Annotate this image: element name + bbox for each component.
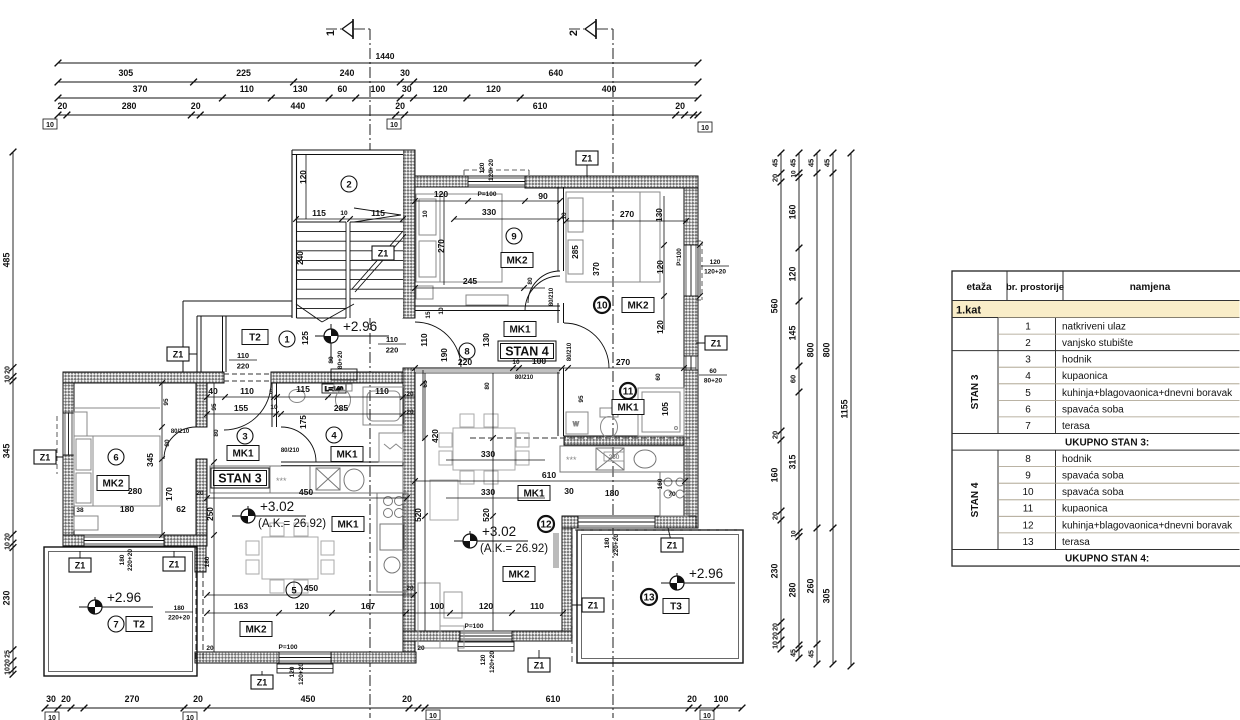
room number 5 (286, 582, 302, 598)
svg-text:80/210: 80/210 (515, 375, 534, 381)
bed room6 (74, 408, 160, 530)
svg-text:270: 270 (437, 239, 446, 253)
svg-text:240: 240 (340, 68, 355, 78)
svg-text:30: 30 (402, 84, 412, 94)
svg-text:20: 20 (5, 659, 12, 667)
terrace 13 outline (577, 530, 743, 663)
gray curtain room12 (553, 533, 559, 568)
svg-text:3: 3 (1025, 355, 1031, 366)
east wall middle piece (684, 296, 698, 356)
window north P=100 (468, 176, 525, 187)
svg-text:Z1: Z1 (378, 249, 389, 259)
svg-text:115: 115 (371, 208, 385, 218)
boxed 10 labels bottom chain (45, 710, 714, 720)
svg-text:2: 2 (568, 30, 580, 36)
dim line room9 c (412, 285, 545, 291)
window east P=100 (684, 245, 698, 296)
svg-text:120: 120 (656, 320, 665, 334)
svg-text:640: 640 (548, 68, 563, 78)
svg-text:330: 330 (481, 449, 496, 459)
svg-text:UKUPNO STAN 3:: UKUPNO STAN 3: (1065, 437, 1149, 448)
label Z1 kitchen window (661, 528, 683, 552)
svg-text:30: 30 (46, 694, 56, 704)
svg-text:12: 12 (540, 520, 552, 531)
room number 6 (108, 449, 124, 465)
label Z1 room5 window (251, 671, 273, 689)
svg-text:20: 20 (191, 101, 201, 111)
svg-text:80: 80 (328, 356, 335, 364)
dim line room10 vertical (661, 196, 667, 330)
bathroom11 south wall (564, 436, 684, 445)
door arc bath4 (281, 427, 316, 462)
window east sill dashes (696, 241, 702, 300)
bottom dim chain (42, 694, 746, 711)
svg-text:240: 240 (296, 251, 305, 265)
svg-text:110: 110 (386, 335, 398, 344)
stairwell outline (292, 150, 403, 318)
room12 south wall west piece (403, 631, 460, 641)
svg-text:2: 2 (1025, 338, 1031, 349)
svg-text:180: 180 (604, 537, 611, 548)
svg-text:180: 180 (204, 556, 211, 567)
svg-text:167: 167 (361, 601, 376, 611)
svg-text:420: 420 (431, 429, 440, 443)
svg-text:155: 155 (234, 403, 249, 413)
wall room6 right lower (196, 459, 207, 546)
dim line STAN3 row1 (204, 394, 415, 400)
STAN4 kitchen south wall west piece (562, 516, 578, 528)
svg-text:1: 1 (284, 334, 290, 345)
svg-text:20: 20 (417, 645, 425, 652)
interior dimension labels (76, 159, 729, 685)
dim line STAN3 west vertical (211, 383, 217, 652)
label MK1 corridor8 (504, 322, 536, 337)
svg-text:90: 90 (538, 191, 548, 201)
svg-text:45: 45 (791, 649, 798, 657)
svg-text:120: 120 (788, 267, 798, 282)
svg-text:+2.96: +2.96 (107, 590, 141, 605)
svg-text:163: 163 (234, 601, 249, 611)
svg-text:20: 20 (61, 694, 71, 704)
svg-text:Z1: Z1 (257, 678, 268, 688)
svg-text:95: 95 (163, 398, 170, 406)
svg-text:10: 10 (48, 715, 56, 720)
door arc STAN3 entry (224, 383, 271, 430)
partition bath4 south (281, 462, 403, 466)
svg-text:370: 370 (592, 262, 601, 276)
svg-text:+3.02: +3.02 (260, 499, 294, 514)
east wall lower piece (684, 370, 698, 528)
svg-text:345: 345 (146, 453, 155, 467)
svg-text:20: 20 (406, 409, 414, 416)
door sill L=140 (322, 369, 357, 393)
svg-text:15: 15 (425, 311, 432, 319)
svg-text:120: 120 (480, 654, 487, 665)
svg-text:10: 10 (438, 307, 445, 315)
svg-text:MK2: MK2 (102, 479, 124, 490)
partition room3/room4 (272, 383, 277, 427)
svg-text:120: 120 (656, 260, 665, 274)
kitchen STAN3 counter (210, 466, 407, 592)
svg-text:kupaonica: kupaonica (1062, 504, 1108, 515)
svg-text:4: 4 (1025, 371, 1031, 382)
wardrobe corridor8 (466, 295, 508, 305)
section flag 1 (325, 19, 353, 39)
svg-text:10: 10 (5, 375, 12, 383)
svg-text:120: 120 (434, 189, 449, 199)
label Z1 east (696, 336, 727, 350)
label MK2 room9 (501, 253, 533, 268)
svg-text:8: 8 (464, 346, 469, 357)
svg-text:STAN 4: STAN 4 (970, 482, 981, 517)
label MK1 kitchen3 (332, 517, 364, 532)
hall1 canopy outline (183, 301, 292, 372)
svg-text:100: 100 (532, 356, 547, 366)
svg-text:br. prostorije: br. prostorije (1006, 282, 1064, 293)
svg-text:MK2: MK2 (508, 570, 530, 581)
window room6 south (84, 535, 164, 546)
svg-text:(A.K.= 26.92): (A.K.= 26.92) (258, 518, 326, 530)
svg-text:370: 370 (133, 84, 148, 94)
dim line room12 west vertical (422, 373, 428, 631)
svg-text:305: 305 (822, 589, 832, 604)
svg-text:10: 10 (5, 667, 12, 675)
svg-text:13: 13 (1022, 537, 1034, 548)
svg-text:20: 20 (395, 101, 405, 111)
svg-text:20: 20 (406, 585, 414, 592)
svg-text:280: 280 (122, 101, 137, 111)
window north sill dashes (464, 170, 529, 176)
svg-text:13: 13 (643, 593, 655, 604)
svg-text:MK1: MK1 (509, 325, 531, 336)
svg-text:1440: 1440 (376, 51, 395, 61)
svg-text:60: 60 (709, 368, 717, 375)
svg-text:80: 80 (484, 382, 491, 390)
label MK1 room3 (227, 446, 259, 461)
svg-text:175: 175 (299, 415, 308, 429)
section line 1 (326, 29, 370, 718)
svg-text:MK1: MK1 (336, 450, 358, 461)
svg-text:STAN 3: STAN 3 (970, 374, 981, 409)
svg-text:160: 160 (788, 205, 798, 220)
svg-text:225: 225 (236, 68, 251, 78)
svg-text:UKUPNO STAN 4:: UKUPNO STAN 4: (1065, 553, 1149, 564)
door arc STAN4 entry (415, 322, 461, 368)
label Z1 room12 east (572, 598, 604, 612)
svg-text:450: 450 (304, 583, 319, 593)
door arc room10 (525, 276, 560, 311)
svg-text:10: 10 (703, 713, 711, 720)
dim line room5 450 (204, 592, 417, 598)
svg-text:220+20: 220+20 (127, 549, 134, 571)
svg-text:120: 120 (289, 666, 296, 677)
svg-text:hodnik: hodnik (1062, 355, 1092, 366)
dim line STAN3 row2 (204, 411, 415, 417)
exterior wall room6 upper-left (63, 372, 74, 413)
svg-text:120: 120 (479, 162, 486, 173)
svg-text:10: 10 (5, 542, 12, 550)
svg-text:120: 120 (486, 84, 501, 94)
svg-text:250: 250 (206, 507, 215, 521)
svg-text:45: 45 (771, 159, 780, 167)
partition bath11 west (558, 311, 564, 436)
terrace 13 dashed overhang (572, 530, 743, 663)
label MK1 room4 (331, 447, 363, 462)
central wall lower (STAN3/STAN4 divider) (403, 368, 415, 652)
right dim chain 3 (806, 150, 821, 668)
svg-text:P=100: P=100 (677, 248, 683, 266)
svg-text:1155: 1155 (840, 399, 850, 418)
svg-text:180: 180 (120, 504, 135, 514)
svg-text:P=100: P=100 (279, 644, 298, 651)
svg-text:180: 180 (605, 488, 620, 498)
svg-text:MK1: MK1 (617, 403, 639, 414)
level marker STAN4 +3.02 (454, 524, 548, 555)
svg-text:kuhinja+blagovaonica+dnevni bo: kuhinja+blagovaonica+dnevni boravak (1062, 520, 1233, 531)
svg-text:60: 60 (338, 84, 348, 94)
svg-text:130: 130 (293, 84, 308, 94)
svg-text:20: 20 (196, 490, 204, 497)
boxed 10 labels top chain (43, 119, 712, 132)
svg-text:natkriveni ulaz: natkriveni ulaz (1062, 321, 1126, 332)
svg-text:5: 5 (1025, 388, 1031, 399)
svg-text:270: 270 (125, 694, 140, 704)
label T3 terrace13 (663, 599, 689, 614)
svg-text:245: 245 (463, 276, 478, 286)
room number 9 (506, 228, 522, 244)
svg-text:45: 45 (807, 159, 816, 167)
svg-text:230: 230 (770, 564, 780, 579)
label MK2 room12 (503, 567, 535, 582)
room number 10 (594, 297, 610, 313)
svg-text:450: 450 (299, 487, 314, 497)
window room12 south outer sill (458, 642, 514, 651)
svg-text:10: 10 (701, 125, 709, 132)
bathroom4 fixtures (289, 384, 404, 462)
door arc room9 (528, 271, 560, 303)
svg-text:spavaća soba: spavaća soba (1062, 471, 1124, 482)
svg-text:namjena: namjena (1130, 282, 1171, 293)
level marker hall +2.96 (315, 319, 389, 362)
svg-text:7: 7 (113, 619, 118, 630)
svg-text:7: 7 (1025, 421, 1031, 432)
svg-text:120+20: 120+20 (488, 159, 495, 181)
svg-text:560: 560 (770, 299, 780, 314)
svg-text:8: 8 (1025, 454, 1031, 465)
svg-text:1: 1 (1025, 321, 1031, 332)
label T2 terrace7 (126, 617, 152, 632)
svg-text:6: 6 (1025, 404, 1031, 415)
east wall upper piece (684, 188, 698, 245)
terrace railing dashed (196, 572, 203, 660)
dim line room12 330b (446, 497, 545, 499)
svg-text:T3: T3 (670, 602, 682, 613)
label MK2 room5 (240, 622, 272, 637)
svg-text:20: 20 (406, 391, 414, 398)
svg-text:125: 125 (301, 331, 310, 345)
terrace 7 outline (44, 547, 197, 676)
bed room10 (566, 192, 660, 282)
svg-text:kuhinja+blagovaonica+dnevni bo: kuhinja+blagovaonica+dnevni boravak (1062, 388, 1233, 399)
label STAN 4 (498, 341, 556, 361)
north wall east piece (525, 176, 698, 188)
svg-text:10: 10 (791, 170, 798, 178)
room number 2 (341, 176, 357, 192)
svg-text:65: 65 (422, 380, 429, 388)
svg-text:6: 6 (113, 452, 118, 463)
level marker terrace7 +2.96 (79, 590, 153, 614)
svg-text:280: 280 (788, 583, 798, 598)
svg-text:T2: T2 (133, 620, 145, 631)
svg-text:9: 9 (1025, 471, 1031, 482)
svg-text:95: 95 (211, 403, 218, 411)
svg-text:45: 45 (789, 159, 798, 167)
svg-text:110: 110 (237, 351, 249, 360)
STAN3 south wall west piece (195, 652, 279, 663)
room number 1 (279, 331, 295, 347)
dim line stairs vertical (305, 154, 307, 219)
svg-text:30: 30 (400, 68, 410, 78)
window room6 west (63, 413, 74, 455)
right dim chain 4 (822, 150, 837, 668)
dim line window east (697, 242, 703, 299)
svg-text:***: *** (276, 476, 287, 486)
label Z1 terrace7 left (69, 551, 91, 572)
bed room9 (416, 194, 502, 299)
room number 3 (237, 428, 253, 444)
svg-text:120+20: 120+20 (298, 663, 305, 685)
svg-text:180: 180 (119, 554, 126, 565)
svg-text:MK2: MK2 (627, 301, 649, 312)
svg-text:w: w (572, 419, 579, 428)
svg-text:P=100: P=100 (478, 191, 497, 198)
svg-text:45: 45 (823, 159, 832, 167)
svg-text:spavaća soba: spavaća soba (1062, 487, 1124, 498)
svg-text:20: 20 (5, 533, 12, 541)
label STAN 3 (211, 468, 269, 488)
dim line room9 a (412, 198, 563, 204)
svg-text:45: 45 (809, 650, 816, 658)
label Z1 hall (167, 347, 197, 361)
top wall STAN3 right part (271, 372, 415, 383)
dim line room9 b (451, 216, 563, 222)
svg-text:80/210: 80/210 (549, 287, 555, 306)
svg-text:vanjsko stubište: vanjsko stubište (1062, 338, 1134, 349)
room number 8 (459, 343, 475, 359)
room12 south wall east piece (512, 631, 572, 641)
svg-text:terasa: terasa (1062, 537, 1090, 548)
svg-text:MK1: MK1 (337, 520, 359, 531)
window room5 south outer sill (277, 664, 333, 673)
svg-text:160: 160 (770, 468, 780, 483)
svg-text:20: 20 (687, 694, 697, 704)
svg-text:1.kat: 1.kat (956, 305, 981, 317)
kitchen STAN4 counter (560, 446, 688, 516)
svg-text:100: 100 (430, 601, 445, 611)
svg-text:10: 10 (422, 210, 429, 218)
svg-text:terasa: terasa (1062, 421, 1090, 432)
svg-text:115: 115 (312, 208, 326, 218)
svg-text:280: 280 (128, 486, 143, 496)
dining set room12 (430, 414, 529, 520)
entrance door opening dashed (224, 374, 271, 381)
room number 7 (108, 616, 124, 632)
label MK2 room10 (622, 298, 654, 313)
label MK2 room6 (97, 476, 129, 491)
svg-text:10: 10 (773, 641, 780, 649)
svg-text:520: 520 (414, 508, 423, 522)
svg-text:12: 12 (1022, 520, 1034, 531)
svg-text:MK1: MK1 (232, 449, 254, 460)
svg-text:4: 4 (331, 430, 337, 441)
section flag 2 (568, 19, 596, 39)
svg-text:10: 10 (1022, 487, 1034, 498)
svg-text:610: 610 (542, 470, 557, 480)
north wall west piece (415, 176, 468, 187)
door arc room6 (164, 427, 196, 459)
svg-text:etaža: etaža (966, 282, 991, 293)
dim line kitchen3 (204, 495, 410, 501)
door arc bath11 (564, 323, 609, 368)
svg-text:10: 10 (791, 530, 798, 538)
thin line corridor8 south (415, 372, 560, 374)
svg-text:20: 20 (771, 431, 780, 439)
dim line stairs (293, 216, 406, 222)
svg-text:220: 220 (237, 362, 250, 371)
svg-text:+3.02: +3.02 (482, 524, 516, 539)
dashed beam room12 (470, 437, 690, 439)
label Z1 room12 window (528, 650, 550, 672)
svg-text:+2.96: +2.96 (689, 566, 723, 581)
svg-text:20: 20 (402, 694, 412, 704)
svg-text:610: 610 (546, 694, 561, 704)
svg-text:kupaonica: kupaonica (1062, 371, 1108, 382)
svg-text:70: 70 (668, 491, 676, 498)
svg-text:60: 60 (789, 375, 798, 383)
top wall STAN3 left part (63, 372, 224, 383)
dim line room12 610 (412, 478, 688, 484)
right dim chain 1 (770, 150, 785, 653)
svg-text:80/210: 80/210 (171, 429, 190, 435)
svg-text:20: 20 (193, 694, 203, 704)
svg-text:80+20: 80+20 (337, 350, 344, 369)
window room12 south P=100 (460, 631, 512, 641)
label Z1 stairs (372, 246, 394, 260)
svg-text:Z1: Z1 (711, 339, 722, 349)
room number 11 (620, 383, 636, 399)
svg-text:***: *** (566, 455, 577, 465)
svg-text:120: 120 (299, 170, 308, 184)
room number 4 (326, 427, 342, 443)
bathroom11 fixtures (566, 388, 684, 438)
label Z1 room6 window (34, 450, 63, 464)
svg-text:285: 285 (334, 403, 349, 413)
room number 12 (538, 516, 554, 532)
svg-text:40: 40 (208, 386, 218, 396)
svg-text:330: 330 (482, 207, 497, 217)
svg-text:800: 800 (806, 343, 816, 358)
room12 east wall (562, 528, 572, 641)
dim line room6 vertical (159, 380, 165, 538)
svg-text:250: 250 (609, 454, 620, 461)
bottom wall room6 left piece (63, 535, 84, 546)
room number 13 (641, 589, 657, 605)
svg-text:120+20: 120+20 (704, 269, 726, 276)
svg-text:10: 10 (512, 359, 520, 366)
svg-text:Z1: Z1 (588, 601, 599, 611)
svg-text:100: 100 (371, 84, 386, 94)
svg-text:220+20: 220+20 (613, 534, 620, 556)
